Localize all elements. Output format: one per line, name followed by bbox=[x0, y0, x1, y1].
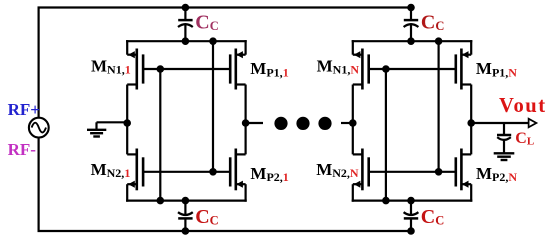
transistor MP2,N bbox=[456, 149, 471, 191]
node top rail CC stage N bbox=[407, 37, 415, 45]
ellipsis dots more stages bbox=[274, 117, 331, 130]
svg-text:MP1,N: MP1,N bbox=[476, 59, 517, 79]
output arrow bbox=[529, 119, 537, 128]
node right rail mid stage 1 bbox=[242, 119, 250, 127]
RF source V1 bbox=[29, 118, 49, 138]
wire bottom rail stage N bbox=[352, 200, 473, 202]
svg-text:CC: CC bbox=[421, 206, 444, 228]
transistor MP1,1 bbox=[230, 49, 245, 90]
transistor MN2,1 bbox=[127, 149, 143, 191]
svg-text:MN1,N: MN1,N bbox=[317, 56, 360, 76]
node bottom rail inner-left stage N bbox=[382, 197, 390, 205]
node gate row top / inner-left stage 1 bbox=[157, 65, 165, 73]
node gate row top / inner-left stage N bbox=[382, 65, 390, 73]
wire gate row bottom stage 1 bbox=[143, 171, 230, 173]
wire right rail stage N bbox=[470, 40, 472, 202]
wire top rail RF+ horizontal bbox=[38, 6, 412, 8]
svg-text:CC: CC bbox=[195, 206, 218, 228]
wire left rail stage N bbox=[352, 40, 354, 202]
wire gate row bottom stage N bbox=[369, 171, 456, 173]
wire stage N input stub bbox=[341, 122, 353, 124]
node left rail mid stage N bbox=[349, 119, 357, 127]
wire output Vout bbox=[471, 122, 529, 124]
transistor MN1,1 bbox=[127, 49, 143, 90]
wire inner-left vertical stage N bbox=[385, 69, 387, 201]
node CC bottom stage 1 on RF- wire bbox=[182, 227, 190, 235]
wire top rail stage 1 bbox=[126, 40, 247, 42]
transistor MN2,N bbox=[353, 149, 369, 191]
wire bottom rail stage 1 bbox=[126, 200, 247, 202]
node left rail mid stage 1 bbox=[123, 119, 131, 127]
wire ground tap bbox=[97, 121, 128, 123]
wire source to bottom rail bbox=[37, 138, 39, 231]
node top rail CC stage 1 bbox=[182, 37, 190, 45]
wire stage1 output stub bbox=[246, 122, 263, 124]
node bottom rail inner-left stage 1 bbox=[157, 197, 165, 205]
wire bottom rail RF- horizontal bbox=[38, 230, 412, 232]
wire gate row top stage 1 bbox=[143, 68, 230, 70]
svg-text:RF-: RF- bbox=[8, 140, 37, 159]
capacitor CC top stage 1 bbox=[178, 8, 193, 42]
node gate row bottom / inner-right stage N bbox=[435, 168, 443, 176]
wire inner-right vertical stage N bbox=[438, 41, 440, 172]
capacitor CL bbox=[497, 123, 511, 153]
transistor MP2,1 bbox=[230, 149, 245, 191]
node top rail inner-right stage N bbox=[435, 37, 443, 45]
wire left vertical RF+ to source bbox=[37, 8, 39, 118]
node bottom rail CC stage 1 bbox=[182, 197, 190, 205]
ground input bbox=[87, 122, 106, 136]
svg-text:RF+: RF+ bbox=[8, 100, 40, 119]
svg-text:MP2,N: MP2,N bbox=[476, 164, 517, 184]
ground CL bbox=[494, 153, 515, 160]
node right rail mid stage N bbox=[467, 119, 475, 127]
node top rail inner-right stage 1 bbox=[209, 37, 217, 45]
svg-text:MN1,1: MN1,1 bbox=[91, 56, 131, 76]
svg-text:MN2,1: MN2,1 bbox=[91, 160, 131, 180]
node CC top stage N on RF+ wire bbox=[407, 4, 415, 12]
svg-text:MN2,N: MN2,N bbox=[316, 160, 359, 180]
svg-text:CC: CC bbox=[421, 11, 444, 33]
node gate row bottom / inner-right stage 1 bbox=[209, 168, 217, 176]
transistor MP1,N bbox=[456, 49, 471, 90]
node CC top stage 1 on RF+ wire bbox=[182, 4, 190, 12]
capacitor CC bottom stage 1 bbox=[178, 201, 193, 231]
svg-text:MP2,1: MP2,1 bbox=[250, 164, 288, 184]
capacitor CC bottom stage N bbox=[404, 201, 419, 231]
wire top rail stage N bbox=[352, 40, 473, 42]
svg-text:MP1,1: MP1,1 bbox=[250, 59, 288, 79]
capacitor CC top stage N bbox=[404, 8, 419, 42]
wire left rail stage 1 bbox=[126, 40, 128, 202]
wire inner-right vertical stage 1 bbox=[212, 41, 214, 172]
node bottom rail CC stage N bbox=[407, 197, 415, 205]
svg-text:CC: CC bbox=[195, 11, 218, 33]
wire gate row top stage N bbox=[369, 68, 456, 70]
node CC bottom stage N on RF- wire bbox=[407, 227, 415, 235]
svg-text:Vout: Vout bbox=[499, 95, 547, 117]
transistor MN1,N bbox=[353, 49, 369, 90]
wire inner-left vertical stage 1 bbox=[159, 69, 161, 201]
wire right rail stage 1 bbox=[245, 40, 247, 202]
svg-text:CL: CL bbox=[515, 130, 534, 148]
